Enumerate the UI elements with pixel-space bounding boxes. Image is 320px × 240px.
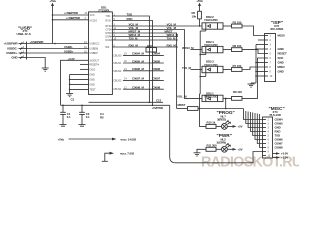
wire CBUS3 [123,77,164,81]
X2 right labels [278,34,287,74]
wire to ISP SCK [242,58,265,98]
label C4 R5 [100,112,104,120]
svg-text:R8 100: R8 100 [233,90,242,94]
LED PROG [216,120,243,129]
svg-text:MISO: MISO [278,65,286,69]
svg-text:R7 100: R7 100 [233,64,242,68]
wire RXD [112,17,153,106]
label "USB" title [17,26,33,36]
svg-text:R6 100: R6 100 [233,44,242,48]
svg-text:TXD: TXD [127,12,132,16]
wire +5V rail B [61,105,170,110]
buffer DD2.2 74HC125 [202,15,223,31]
wire USB GND [27,58,46,69]
X2 ground bus [251,40,265,83]
svg-text:C0097_M: C0097_M [132,77,145,81]
svg-text:+USBPWR: +USBPWR [64,11,79,15]
svg-text:USBD+: USBD+ [64,49,74,53]
label "ISP" title [271,20,284,31]
svg-text:MOSI: MOSI [278,34,285,38]
svg-text:74HC125D: 74HC125D [204,18,218,22]
svg-text:RXD: RXD [106,20,111,23]
svg-text:GND: GND [90,78,96,81]
wire DCD to DD2.3 [112,36,202,70]
svg-text:3(GRN): 3(GRN) [217,140,226,144]
wire VCCIO to DD1 [53,19,89,21]
svg-text:TXD: TXD [106,15,111,18]
svg-text:RXD: RXD [127,17,133,21]
svg-text:+3.3V: +3.3V [68,57,75,61]
svg-text:TEST: TEST [90,88,97,91]
resistor R3 [223,20,242,28]
capacitor C1 [60,105,72,127]
LED PWR [216,143,243,152]
svg-text:R10 1k: R10 1k [207,121,216,125]
svg-text:GND: GND [278,70,284,74]
power +5Va arrow [49,0,56,43]
svg-text:USBDP: USBDP [90,52,99,55]
enable wire with resistor R9 [177,103,244,110]
svg-text:USBDC-: USBDC- [7,47,18,51]
svg-text:RX0_M: RX0_M [129,43,139,47]
svg-text:C0096_M: C0096_M [132,67,145,71]
buffer DD2.4 74HC125 [202,40,223,55]
svg-text:TX0_M: TX0_M [129,36,139,40]
net arrow to sheet 7.002 [102,152,135,162]
svg-text:+USBPWR: +USBPWR [66,16,81,20]
wire CBUS1 [123,59,164,63]
svg-text:USBL-1F-S: USBL-1F-S [17,32,31,36]
label "PROG" title [217,110,235,121]
connector X3 MISC [263,117,273,158]
svg-text:C0098: C0098 [152,86,161,90]
svg-text:3(RED): 3(RED) [217,117,226,121]
wire CBUS0 [123,52,164,56]
svg-text:10k: 10k [192,14,197,18]
svg-text:C0094_M: C0094_M [132,52,145,56]
wire TXD [112,12,150,103]
DD1 left pin names [90,14,100,91]
svg-text:MRST: MRST [178,103,186,107]
wire CBUS4 [123,86,164,90]
svg-text:C13: C13 [156,99,161,103]
svg-text:R11 300: R11 300 [207,144,218,148]
svg-text:RX0_M: RX0_M [167,43,177,47]
svg-text:+5Va: +5Va [49,0,56,3]
resistor R10 [206,121,216,129]
svg-text:3V3OUT: 3V3OUT [90,59,100,62]
svg-text:C0098_M: C0098_M [132,86,145,90]
svg-text:TX0_M: TX0_M [182,66,192,70]
ground (ISP) [248,83,255,87]
svg-text:GND: GND [90,73,96,76]
X3 right labels [273,118,289,160]
resistor R2 pullup [192,11,202,27]
wire CTS to DD2.1 [112,26,202,99]
svg-text:+USBPWR: +USBPWR [30,40,45,44]
svg-text:RESET#: RESET# [90,63,100,66]
svg-text:DCD#: DCD# [106,39,113,42]
svg-text:C0097: C0097 [152,77,161,81]
label "PWR" title [217,133,232,144]
svg-text:+5Va: +5Va [58,137,65,141]
svg-text:пост. 14.002: пост. 14.002 [121,137,137,141]
svg-text:CBUS0: CBUS0 [113,54,122,57]
svg-text:CBUS4: CBUS4 [113,88,122,91]
enable bus for buffers [199,31,205,102]
svg-text:GND: GND [11,56,17,60]
wire to ISP MOSI [242,26,265,36]
svg-text:C3: C3 [71,98,75,102]
svg-text:RESET: RESET [278,52,287,56]
svg-text:C0095_M: C0095_M [132,59,145,63]
X3 feed bus [244,109,263,148]
svg-text:CBUS2: CBUS2 [113,70,122,73]
X1 pin labels [4,42,19,60]
svg-text:0.1: 0.1 [67,115,71,119]
IC DD1 FT232RL [89,6,113,95]
resistor R7 [223,64,242,72]
wire VCC to DD1 [53,14,89,16]
connector X1 USB socket [19,41,27,60]
resistor R8 [223,90,242,100]
resistor R11 [206,144,217,152]
svg-text:0.1: 0.1 [86,115,90,119]
svg-text:CBUS1: CBUS1 [113,62,122,65]
wire rail A [89,101,164,103]
wire RI and component BQ1 [112,43,178,52]
ground (PWR) [194,149,207,156]
connector X2 ISP [265,34,276,82]
svg-text:CBUS3: CBUS3 [113,79,122,82]
svg-text:WR13_M: WR13_M [182,46,194,50]
ground (USB shield) [42,68,49,71]
svg-text:USBVCC: USBVCC [90,43,100,46]
wire DSR to DD2.4 [112,33,202,50]
net arrow +5Va to sheet 14.002 [58,137,137,141]
svg-text:USBDM: USBDM [90,48,99,51]
svg-text:TX0_M: TX0_M [167,36,177,40]
svg-text:+3.3V: +3.3V [281,156,288,160]
svg-text:VCCIO: VCCIO [90,20,98,23]
wire to ISP RESET [242,50,265,54]
svg-text:C0096: C0096 [152,67,161,71]
svg-text:PLS-10R: PLS-10R [270,113,282,117]
svg-text:BQ1: BQ1 [147,44,153,48]
svg-text:GND: GND [90,83,96,86]
wire RTS to DD2.2 [112,22,202,26]
svg-text:пост. 7.002: пост. 7.002 [120,152,134,156]
svg-text:GND: GND [278,47,284,51]
wire to bottom arc [170,105,263,163]
svg-text:USBD-: USBD- [64,45,73,49]
svg-text:+5Vb: +5Vb [196,0,203,3]
svg-text:USBDC+: USBDC+ [6,51,18,55]
svg-text:+5V: +5V [238,148,243,152]
wire PROG feed [200,109,207,127]
wire USBD- [27,48,89,50]
resistor R6 [223,44,242,52]
DD1 ground bus [69,74,89,93]
svg-text:VOL_M: VOL_M [177,95,187,99]
svg-text:C0095: C0095 [152,59,161,63]
svg-text:C0094: C0094 [152,52,161,56]
power +5Vb arrow [196,0,203,11]
wire DTR [112,29,176,108]
svg-text:IDC-10MS: IDC-10MS [271,27,284,31]
svg-text:+5VPWR: +5VPWR [152,106,164,110]
DD1 reset/osc stubs [80,63,89,65]
svg-text:R3 100: R3 100 [233,20,242,24]
wire to ISP MISO [242,67,265,70]
capacitor C2 [79,105,91,127]
DD1 right pin names [106,15,122,91]
node: +5V junctions [52,14,54,16]
svg-text:SCK: SCK [278,56,285,60]
svg-text:GND: GND [278,61,284,65]
svg-text:RI#: RI# [106,46,110,49]
wire 3V3OUT [61,60,89,105]
svg-text:+USBPWR: +USBPWR [4,42,19,46]
wire USB VBUS [27,43,89,45]
svg-text:R5: R5 [100,116,104,120]
buffer DD2.1 74HC125 [200,91,224,108]
wire CBUS2 [123,67,164,71]
buffer DD2.3 74HC125 [202,60,223,77]
ground (DD1) [66,94,73,97]
svg-text:+5V: +5V [238,125,243,129]
svg-text:OSCI: OSCI [90,68,96,71]
svg-text:VCC: VCC [90,14,95,17]
wire USBD+ [27,52,89,54]
svg-text:C0098: C0098 [275,146,284,150]
label "MISC" title [269,106,285,117]
